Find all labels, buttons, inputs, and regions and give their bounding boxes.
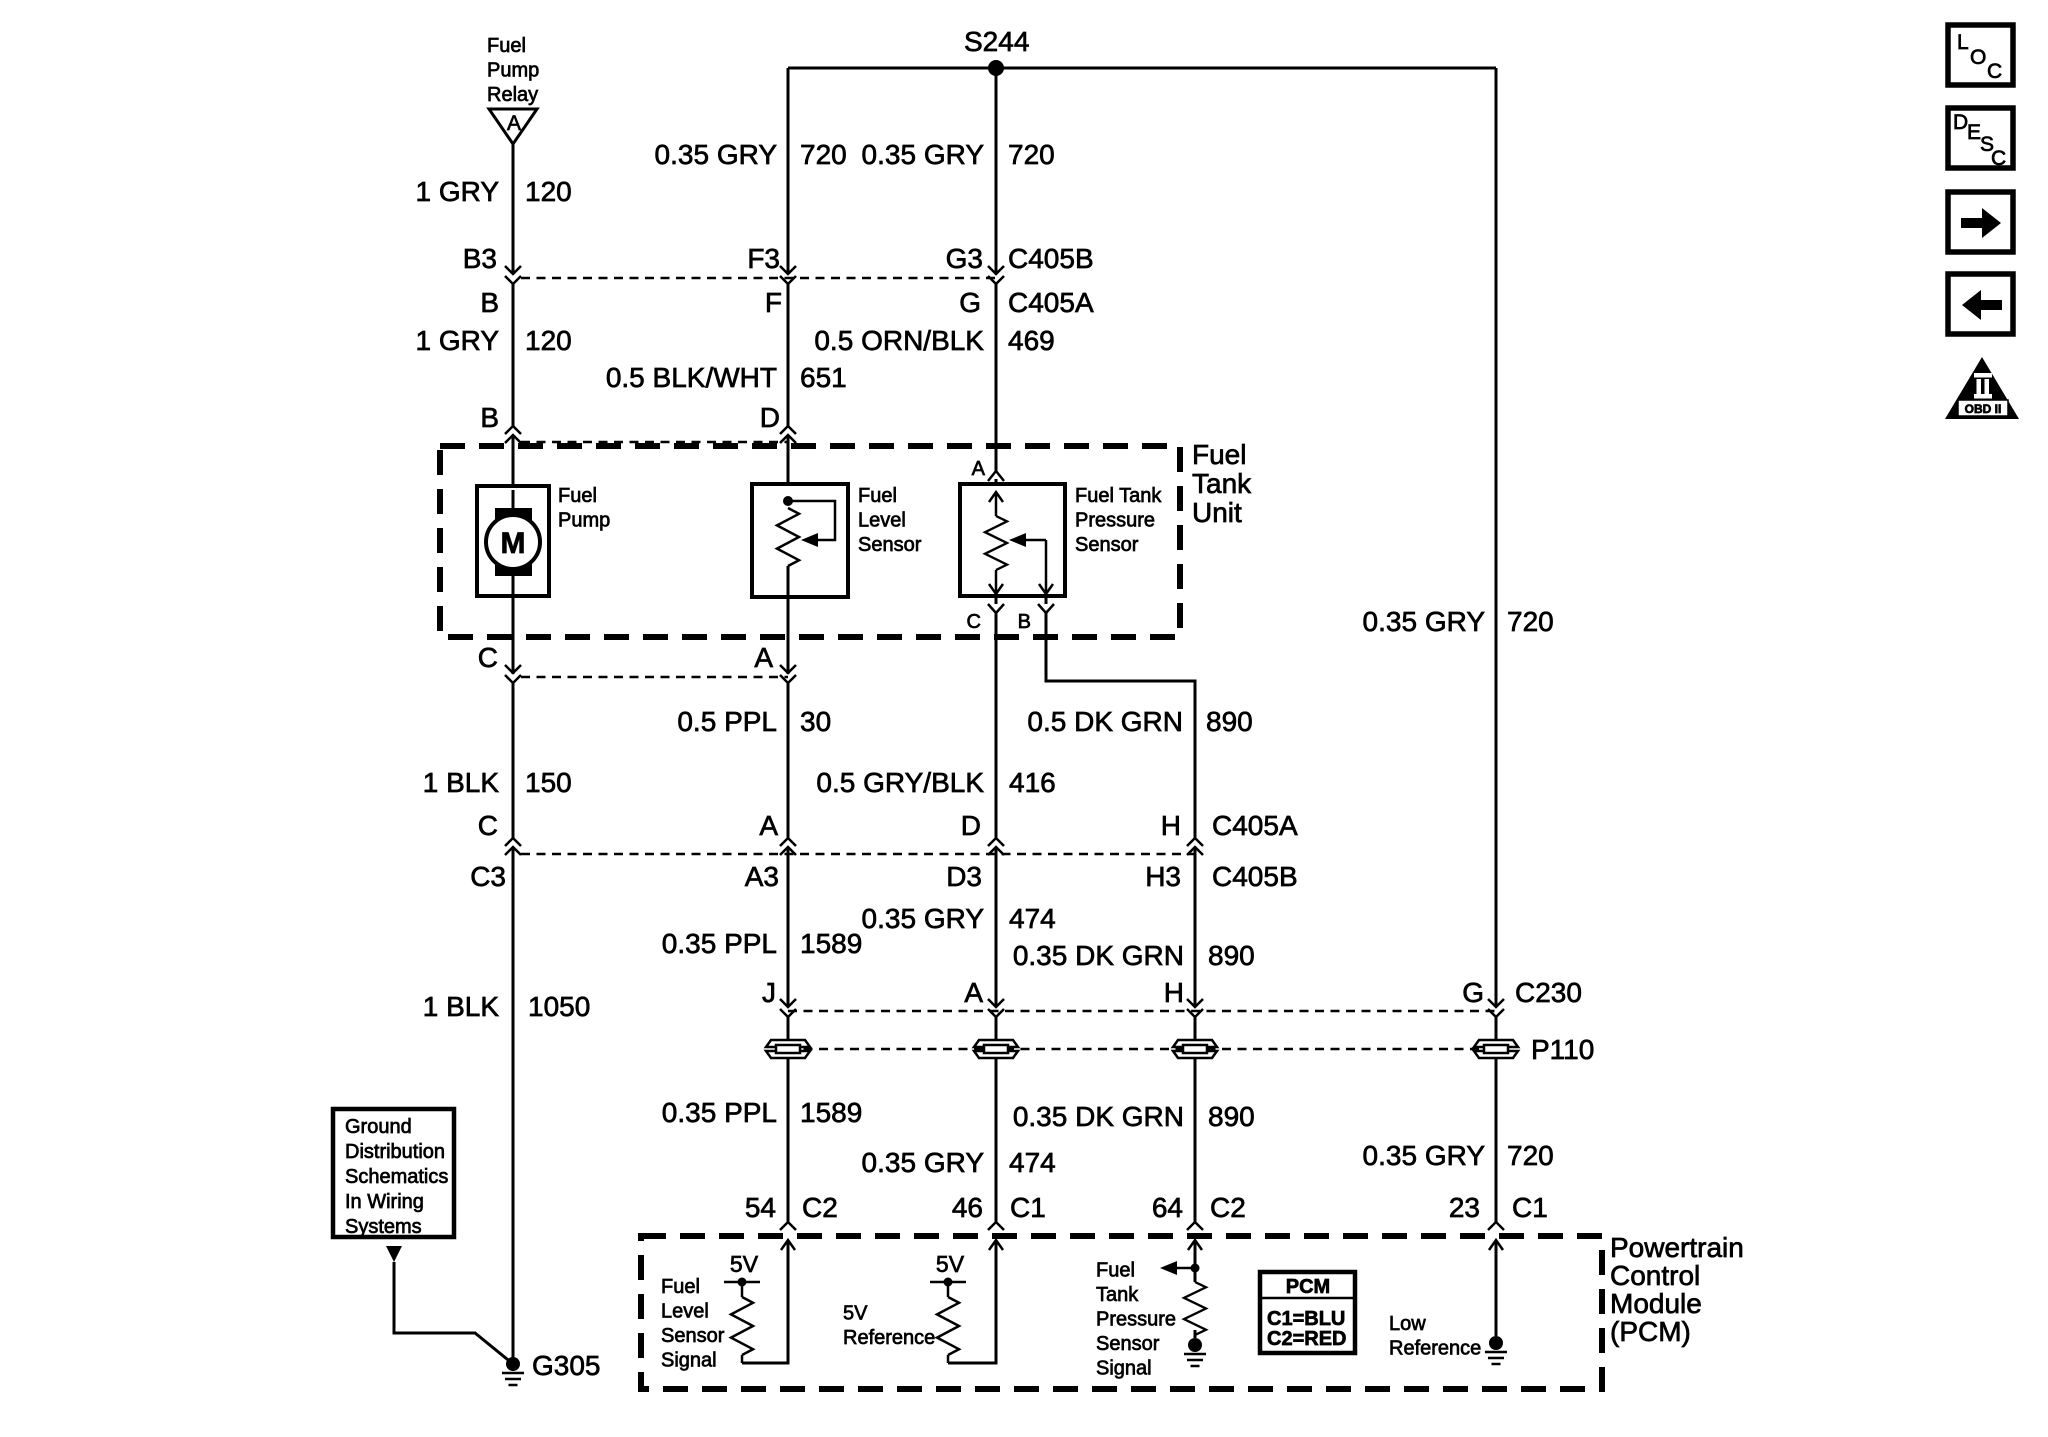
wire 0.35 DK GRN 890 lower bbox=[1194, 1059, 1197, 1222]
icon back arrow box bbox=[1948, 274, 2013, 334]
PCM 5V pull-up resistor 2 bbox=[930, 1281, 966, 1284]
svg-text:Sensor: Sensor bbox=[858, 534, 922, 556]
svg-text:B: B bbox=[480, 402, 499, 433]
svg-text:In Wiring: In Wiring bbox=[345, 1191, 424, 1213]
svg-text:5V: 5V bbox=[843, 1303, 868, 1325]
svg-text:C: C bbox=[967, 611, 981, 633]
svg-text:0.35 PPL: 0.35 PPL bbox=[662, 928, 777, 959]
svg-text:S244: S244 bbox=[964, 26, 1029, 57]
pressure sensor resistor bbox=[985, 516, 1007, 570]
wire inside PCM to pressure signal node bbox=[1194, 1240, 1197, 1268]
svg-text:C405A: C405A bbox=[1008, 287, 1094, 318]
wire 0.35 PPL 1589 lower bbox=[787, 1059, 790, 1222]
svg-text:5V: 5V bbox=[936, 1251, 965, 1277]
svg-text:1 BLK: 1 BLK bbox=[423, 991, 500, 1022]
wire inside PCM low reference bbox=[1495, 1240, 1498, 1336]
connector A below tank unit bbox=[780, 665, 796, 683]
svg-text:0.35 GRY: 0.35 GRY bbox=[862, 903, 985, 934]
connector dashed line C/A row bbox=[521, 676, 788, 679]
svg-text:A: A bbox=[754, 642, 773, 673]
svg-text:D: D bbox=[760, 402, 780, 433]
pressure sensor wiper arm bbox=[1026, 539, 1046, 542]
pressure sensor wiper arrow down B bbox=[1045, 540, 1048, 594]
svg-text:C405B: C405B bbox=[1008, 243, 1094, 274]
wire to grommet bbox=[1194, 1017, 1197, 1039]
grommet P110 pass-through 3 bbox=[1173, 1040, 1217, 1058]
PCM internal ground low reference bbox=[1485, 1336, 1507, 1364]
ground G305 bbox=[502, 1357, 524, 1385]
svg-text:B: B bbox=[1018, 611, 1031, 633]
svg-text:150: 150 bbox=[525, 767, 572, 798]
svg-text:Sensor: Sensor bbox=[1075, 534, 1139, 556]
connector J at C230 bbox=[780, 999, 796, 1017]
svg-text:30: 30 bbox=[800, 706, 831, 737]
wire 0.5 BLK/WHT 651 bbox=[787, 284, 790, 426]
svg-text:M: M bbox=[501, 527, 526, 560]
pressure sensor internal arrow up bbox=[989, 492, 1003, 502]
svg-text:0.5 PPL: 0.5 PPL bbox=[677, 706, 777, 737]
svg-text:Fuel: Fuel bbox=[558, 485, 597, 507]
svg-text:A: A bbox=[507, 112, 521, 135]
PCM pressure signal resistor bbox=[1194, 1268, 1197, 1282]
svg-text:Signal: Signal bbox=[661, 1350, 717, 1372]
svg-text:Level: Level bbox=[661, 1301, 709, 1323]
pin 46 C1 into PCM bbox=[988, 1222, 1004, 1250]
svg-text:0.35 GRY: 0.35 GRY bbox=[1363, 1140, 1486, 1171]
wire into fuel level sensor bbox=[787, 435, 790, 501]
svg-text:A: A bbox=[964, 977, 983, 1008]
fuel pump motor M symbol bbox=[512, 490, 515, 508]
icon LOC box bbox=[1948, 25, 2013, 85]
connector C/A below tank unit bbox=[505, 665, 521, 683]
grommet P110 pass-through 2 bbox=[974, 1040, 1018, 1058]
svg-text:E: E bbox=[1967, 121, 1981, 144]
svg-text:Low: Low bbox=[1389, 1313, 1426, 1335]
wire 0.35 GRY 720 center from S244 bbox=[995, 68, 998, 274]
wire fuel pump pin C bbox=[512, 596, 515, 674]
wire 0.5 ORN/BLK 469 bbox=[995, 284, 998, 471]
connector G3/G at C405 bbox=[988, 266, 1004, 284]
svg-text:720: 720 bbox=[1507, 606, 1554, 637]
svg-text:Fuel: Fuel bbox=[1192, 439, 1246, 470]
connector G at C230 bbox=[1488, 999, 1504, 1017]
wire 1 GRY 120 relay to C405 bbox=[512, 144, 515, 274]
wire to grommet bbox=[1495, 1017, 1498, 1039]
svg-text:C405B: C405B bbox=[1212, 861, 1298, 892]
svg-text:O: O bbox=[1970, 46, 1986, 69]
svg-text:23: 23 bbox=[1449, 1192, 1480, 1223]
fuel tank pressure sensor outline box bbox=[960, 484, 1065, 596]
wire 0.35 DK GRN 890 upper bbox=[1194, 847, 1197, 1007]
svg-text:Systems: Systems bbox=[345, 1216, 422, 1238]
svg-text:Ground: Ground bbox=[345, 1116, 412, 1138]
wire to grommet P110 bbox=[787, 1017, 790, 1039]
pin A into fuel tank pressure sensor bbox=[988, 471, 1004, 481]
svg-text:Pump: Pump bbox=[487, 60, 539, 82]
svg-text:Module: Module bbox=[1610, 1288, 1702, 1319]
svg-text:C: C bbox=[1991, 147, 2006, 170]
svg-text:G3: G3 bbox=[946, 243, 983, 274]
svg-text:Unit: Unit bbox=[1192, 497, 1242, 528]
svg-text:G305: G305 bbox=[532, 1350, 601, 1381]
svg-text:0.5 BLK/WHT: 0.5 BLK/WHT bbox=[606, 362, 777, 393]
svg-text:C3: C3 bbox=[470, 861, 506, 892]
connector dashed line C405B/C405A row bbox=[521, 277, 996, 280]
svg-text:A: A bbox=[972, 458, 986, 480]
svg-text:Signal: Signal bbox=[1096, 1358, 1152, 1380]
connector H at C230 bbox=[1187, 999, 1203, 1017]
svg-text:890: 890 bbox=[1208, 1101, 1255, 1132]
svg-text:1589: 1589 bbox=[800, 928, 862, 959]
wire from pointer to G305 bbox=[394, 1262, 513, 1364]
PCM 5V pull-up resistor 1 bbox=[724, 1281, 760, 1284]
ground distribution pointer triangle bbox=[386, 1246, 402, 1262]
svg-text:C: C bbox=[478, 810, 498, 841]
svg-text:H3: H3 bbox=[1145, 861, 1181, 892]
connector F3/F at C405 bbox=[780, 266, 796, 284]
svg-text:890: 890 bbox=[1206, 706, 1253, 737]
svg-text:0.35 GRY: 0.35 GRY bbox=[1363, 606, 1486, 637]
svg-text:G: G bbox=[1462, 977, 1484, 1008]
connector dashed line C405A/C405B lower row bbox=[521, 853, 1195, 856]
wire 0.35 GRY 474 upper bbox=[995, 847, 998, 1007]
pin B below pressure sensor bbox=[1045, 596, 1048, 604]
svg-text:0.35 GRY: 0.35 GRY bbox=[862, 139, 985, 170]
svg-text:H: H bbox=[1164, 977, 1184, 1008]
svg-text:64: 64 bbox=[1152, 1192, 1183, 1223]
wire 0.35 GRY 474 lower bbox=[995, 1059, 998, 1222]
svg-text:Sensor: Sensor bbox=[1096, 1333, 1160, 1355]
svg-text:416: 416 bbox=[1009, 767, 1056, 798]
connector D into fuel tank unit bbox=[780, 426, 796, 443]
PCM connector color legend box bbox=[1260, 1272, 1355, 1353]
svg-text:D: D bbox=[1953, 111, 1968, 134]
svg-text:0.5 DK GRN: 0.5 DK GRN bbox=[1027, 706, 1183, 737]
svg-text:Reference: Reference bbox=[843, 1327, 935, 1349]
svg-text:C405A: C405A bbox=[1212, 810, 1298, 841]
wire through fuel pump bbox=[512, 486, 515, 596]
grommet dashed line P110 row bbox=[788, 1048, 1496, 1051]
svg-text:Control: Control bbox=[1610, 1260, 1700, 1291]
svg-text:P110: P110 bbox=[1531, 1034, 1594, 1065]
connector D/D3 at C405A bbox=[988, 838, 1004, 855]
wire 0.35 GRY 720 left branch bbox=[787, 68, 790, 274]
svg-text:890: 890 bbox=[1208, 940, 1255, 971]
wire into fuel pump bbox=[512, 435, 515, 486]
icon OBD II triangle bbox=[1945, 357, 2019, 419]
svg-text:C2: C2 bbox=[1210, 1192, 1246, 1223]
connector B3/B at C405 bbox=[505, 266, 521, 284]
pin 23 C1 into PCM bbox=[1488, 1222, 1504, 1250]
svg-text:PCM: PCM bbox=[1286, 1276, 1330, 1298]
wire 1 BLK 150 bbox=[512, 683, 515, 838]
svg-text:0.35 DK GRN: 0.35 DK GRN bbox=[1013, 940, 1184, 971]
svg-text:Pump: Pump bbox=[558, 510, 610, 532]
svg-text:C230: C230 bbox=[1515, 977, 1582, 1008]
svg-text:B3: B3 bbox=[463, 243, 497, 274]
svg-text:1 BLK: 1 BLK bbox=[423, 767, 500, 798]
icon DESC box bbox=[1948, 108, 2013, 168]
fuel tank unit dashed enclosure bbox=[440, 446, 1180, 637]
svg-text:C1: C1 bbox=[1010, 1192, 1046, 1223]
icon forward arrow box bbox=[1948, 192, 2013, 252]
PCM internal ground below pressure resistor bbox=[1184, 1338, 1206, 1366]
svg-text:474: 474 bbox=[1009, 1147, 1056, 1178]
svg-text:C2: C2 bbox=[802, 1192, 838, 1223]
powertrain control module dashed enclosure bbox=[641, 1236, 1602, 1389]
svg-text:46: 46 bbox=[952, 1192, 983, 1223]
svg-text:F3: F3 bbox=[747, 243, 780, 274]
splice S244 bus wire bbox=[788, 67, 1496, 70]
wire 0.5 PPL 30 bbox=[787, 683, 790, 838]
svg-text:Tank: Tank bbox=[1096, 1284, 1139, 1306]
svg-text:G: G bbox=[959, 287, 981, 318]
connector H/H3 at C405A bbox=[1187, 838, 1203, 855]
svg-text:0.35 DK GRN: 0.35 DK GRN bbox=[1013, 1101, 1184, 1132]
wire 0.35 PPL 1589 upper bbox=[787, 847, 790, 1007]
svg-text:OBD II: OBD II bbox=[1965, 402, 2002, 416]
wire to grommet bbox=[995, 1017, 998, 1039]
fuel pump outline box bbox=[477, 486, 549, 596]
svg-text:A3: A3 bbox=[745, 861, 779, 892]
svg-text:0.5 ORN/BLK: 0.5 ORN/BLK bbox=[814, 325, 984, 356]
fuel level sensor internal junction dot bbox=[783, 496, 793, 506]
svg-text:Relay: Relay bbox=[487, 84, 538, 106]
svg-text:Fuel Tank: Fuel Tank bbox=[1075, 485, 1162, 507]
svg-text:54: 54 bbox=[745, 1192, 776, 1223]
node S244 junction dot bbox=[988, 60, 1004, 76]
svg-text:0.35 GRY: 0.35 GRY bbox=[655, 139, 778, 170]
fuel level sensor resistor bbox=[777, 508, 799, 566]
svg-text:C: C bbox=[478, 642, 498, 673]
svg-text:Pressure: Pressure bbox=[1075, 510, 1155, 532]
svg-text:Fuel: Fuel bbox=[858, 485, 897, 507]
svg-text:Powertrain: Powertrain bbox=[1610, 1232, 1744, 1263]
svg-text:0.35 GRY: 0.35 GRY bbox=[862, 1147, 985, 1178]
fuel level sensor outline box bbox=[752, 484, 848, 597]
wire 0.5 GRY/BLK 416 bbox=[995, 613, 998, 838]
svg-text:Pressure: Pressure bbox=[1096, 1309, 1176, 1331]
connector C/C3 at C405A bbox=[505, 838, 521, 855]
wire fuel level sensor pin A bbox=[787, 566, 790, 674]
svg-text:0.5 GRY/BLK: 0.5 GRY/BLK bbox=[816, 767, 984, 798]
connector A/A3 at C405A bbox=[780, 838, 796, 855]
svg-text:H: H bbox=[1161, 810, 1181, 841]
svg-text:120: 120 bbox=[525, 325, 572, 356]
svg-text:651: 651 bbox=[800, 362, 847, 393]
wire inside PCM to fuel level sense resistor bbox=[742, 1240, 788, 1363]
ground distribution reference box bbox=[333, 1109, 454, 1237]
svg-text:Level: Level bbox=[858, 510, 906, 532]
node pressure sensor signal junction dot bbox=[1191, 1264, 1200, 1273]
svg-text:474: 474 bbox=[1009, 903, 1056, 934]
wire inside PCM to 5V reference resistor bbox=[948, 1240, 996, 1363]
svg-text:(PCM): (PCM) bbox=[1610, 1316, 1691, 1347]
svg-text:C: C bbox=[1987, 60, 2002, 83]
svg-text:D3: D3 bbox=[946, 861, 982, 892]
svg-text:Fuel: Fuel bbox=[487, 35, 526, 57]
svg-text:L: L bbox=[1957, 31, 1969, 54]
pin 64 C2 into PCM bbox=[1187, 1222, 1203, 1250]
svg-text:0.35 PPL: 0.35 PPL bbox=[662, 1097, 777, 1128]
fuel pump relay symbol A bbox=[489, 109, 537, 144]
svg-text:1589: 1589 bbox=[800, 1097, 862, 1128]
wire 1 GRY 120 to fuel tank unit bbox=[512, 284, 515, 426]
svg-text:Fuel: Fuel bbox=[661, 1276, 700, 1298]
svg-text:1 GRY: 1 GRY bbox=[415, 325, 499, 356]
svg-text:C2=RED: C2=RED bbox=[1267, 1328, 1346, 1350]
svg-text:Distribution: Distribution bbox=[345, 1141, 445, 1163]
pressure sensor internal arrow down C bbox=[995, 570, 998, 594]
grommet P110 pass-through 1 bbox=[766, 1040, 810, 1058]
svg-text:C1: C1 bbox=[1512, 1192, 1548, 1223]
svg-text:469: 469 bbox=[1008, 325, 1055, 356]
svg-text:Reference: Reference bbox=[1389, 1338, 1481, 1360]
wire 0.35 GRY 720 lower bbox=[1495, 1059, 1498, 1222]
svg-text:B: B bbox=[480, 287, 499, 318]
wire 1 BLK 1050 to ground bbox=[512, 847, 515, 1364]
pin C below pressure sensor bbox=[995, 596, 998, 604]
svg-text:Schematics: Schematics bbox=[345, 1166, 448, 1188]
svg-text:J: J bbox=[762, 977, 776, 1008]
svg-text:5V: 5V bbox=[730, 1251, 759, 1277]
connector dashed line B/D row bbox=[521, 441, 788, 444]
svg-text:720: 720 bbox=[1008, 139, 1055, 170]
svg-text:1050: 1050 bbox=[528, 991, 590, 1022]
grommet P110 pass-through 4 bbox=[1474, 1040, 1518, 1058]
wire 0.5 DK GRN 890 bend bbox=[1046, 613, 1195, 838]
svg-text:Tank: Tank bbox=[1192, 468, 1252, 499]
connector dashed line C230 row bbox=[788, 1010, 1496, 1013]
svg-text:720: 720 bbox=[1507, 1140, 1554, 1171]
svg-text:Fuel: Fuel bbox=[1096, 1260, 1135, 1282]
wire 0.35 GRY 720 right branch from S244 bbox=[1495, 68, 1498, 1007]
svg-text:D: D bbox=[961, 810, 981, 841]
svg-text:720: 720 bbox=[800, 139, 847, 170]
svg-text:120: 120 bbox=[525, 176, 572, 207]
connector B into fuel tank unit bbox=[505, 426, 521, 443]
svg-text:1 GRY: 1 GRY bbox=[415, 176, 499, 207]
fuel level sensor wiper arm bbox=[788, 501, 835, 540]
pressure signal arrow left bbox=[1176, 1267, 1195, 1270]
pin 54 C2 into PCM bbox=[780, 1222, 796, 1250]
connector A at C230 bbox=[988, 999, 1004, 1017]
svg-text:Sensor: Sensor bbox=[661, 1325, 725, 1347]
svg-text:F: F bbox=[765, 287, 782, 318]
svg-text:C1=BLU: C1=BLU bbox=[1267, 1308, 1345, 1330]
svg-text:A: A bbox=[759, 810, 778, 841]
